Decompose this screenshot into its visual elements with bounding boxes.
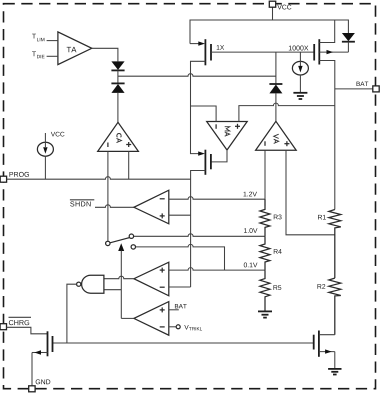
op-amp TA (temperature amp)	[32, 32, 92, 65]
terminal PROG	[0, 176, 6, 182]
terminal CHRG	[0, 324, 6, 330]
wire MA plus input (hop at VA diode)	[239, 103, 335, 121]
wire PROG line (hop at x=107.9)	[7, 177, 191, 180]
wire MA output to Q3 gate	[211, 150, 227, 162]
wire A1 plus to PROG vertical	[169, 214, 191, 216]
wire main gate drive line (CHRG fet to right NMOS)	[53, 342, 314, 344]
wire NAND bottom input	[104, 289, 121, 291]
resistor R3	[260, 199, 282, 236]
current source I1 (gate bias)	[292, 52, 308, 93]
diode D2 (CA to gate node)	[111, 83, 124, 122]
op-amp CA (current amp)	[98, 122, 139, 151]
wire 0.1V line (hops at x=190.6)	[169, 268, 265, 271]
transistor Q4 (CHRG open-drain)	[32, 331, 53, 386]
resistor R4	[260, 236, 282, 270]
op-amp A3 (trickle comparator)	[134, 302, 169, 336]
resistor R1	[318, 210, 341, 279]
ground for Q5	[328, 369, 341, 375]
wire A3 output to control vertical	[121, 317, 134, 319]
op-amp A2 (recharge comparator)	[134, 262, 169, 296]
wire A2 output to NAND input (hop at x=121.3)	[104, 276, 134, 279]
op-amp A1 (C/10 comparator)	[134, 190, 169, 224]
terminal GND	[29, 386, 35, 392]
ground for R5	[258, 311, 272, 317]
wire NAND output to gate line	[67, 284, 77, 343]
wire CA plus input	[128, 151, 130, 179]
transistor Q3 (PROG mirror pass)	[191, 150, 211, 287]
switch S1 common/contacts	[106, 234, 136, 249]
wire switch bottom contact branch (hop at x=190.6)	[136, 244, 225, 270]
wire CA minus input (down, hops PROG and SHDN)	[107, 151, 109, 241]
gate U1 NAND (mirrored)	[77, 275, 104, 293]
wire VCC terminal drop	[272, 7, 274, 20]
wire VA plus input to R1/R2 tap	[286, 150, 335, 235]
wire top VCC rail	[190, 20, 348, 44]
diode D3 (VA to gate node)	[269, 52, 282, 121]
transistor Q5 (right pull-down NMOS)	[314, 331, 335, 369]
wire TA output	[92, 48, 118, 61]
wire VA minus input down to 1.2V node	[264, 150, 266, 206]
transistor Q1 1X (PMOS mirror)	[190, 39, 224, 153]
terminal BAT	[335, 88, 373, 90]
wire CHRG to Q4 drain	[7, 327, 48, 334]
wire gate-drive node line (hop at x=190.5)	[118, 74, 276, 77]
wire SHDN to A1 output (hop at x=107.9)	[95, 205, 134, 207]
diode D4 body diode of Q2	[342, 33, 355, 52]
resistor R5	[260, 270, 281, 311]
wire MA minus input	[191, 106, 217, 122]
transistor Q2 1000X (PMOS output)	[289, 20, 349, 210]
wire A2 minus to PROG vertical corner	[169, 286, 191, 288]
op-amp VA (voltage amp)	[256, 121, 297, 150]
wire switch control arrow from A3	[118, 243, 124, 318]
current source I2 (PROG pull-up from VCC)	[37, 132, 64, 179]
wire A3 BAT input stub	[169, 309, 179, 311]
op-amp MA (mirror amp)	[207, 122, 248, 151]
wire gate line 1X to 1000X	[211, 51, 314, 53]
wire A1 minus to 1.2V (hop at x=190.6)	[169, 197, 265, 200]
label SHDN with overbar	[70, 201, 90, 206]
terminal VCC	[269, 1, 275, 7]
diode D1 (TA to gate node)	[111, 61, 124, 83]
node VTRIKL input	[169, 326, 176, 328]
wire 1.0V line to switch top contact (hop at x=190.6)	[134, 234, 265, 236]
ground for I1	[293, 93, 307, 99]
resistor R2	[317, 278, 340, 335]
